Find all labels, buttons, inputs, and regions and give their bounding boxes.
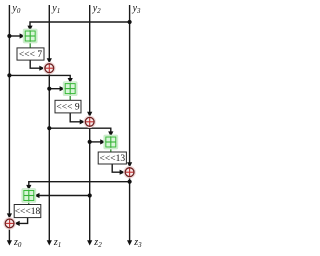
rot box R4 <<<18: [14, 205, 41, 218]
node y3 at A4: [128, 180, 132, 184]
wire y1 branch to adder A3 top: [49, 128, 111, 134]
svg-text:<<<18: <<<18: [15, 207, 41, 217]
rot box R2 <<<9: [55, 100, 81, 113]
wire y3 branch to adder A4 top: [29, 182, 130, 188]
arrow into adder A3 top: [108, 131, 113, 136]
arrow into adder A4 right: [34, 193, 39, 198]
arrow into XOR X3 left: [120, 170, 125, 175]
node y0 at A1: [7, 34, 11, 38]
node y1 at A2: [47, 87, 51, 91]
XOR X3: [124, 167, 135, 178]
output arrow z0: [7, 240, 12, 245]
node y2 at A3: [88, 140, 92, 144]
node y3 top branch: [128, 20, 132, 24]
arrow into XOR X1 top: [47, 58, 52, 63]
arrow into adder A4 top: [26, 185, 31, 190]
wire y3 branch to adder A1 top: [30, 22, 130, 29]
arrow into adder A3 left: [100, 139, 105, 144]
wire rot R2 output to XOR X2: [70, 113, 82, 122]
arrow into adder A2 left: [60, 86, 65, 91]
arrow into adder A1 top: [27, 26, 32, 31]
adder A2 (boxed plus): [64, 82, 77, 95]
arrow into XOR X4 top: [7, 213, 12, 218]
output arrow z1: [47, 240, 52, 245]
wire y3 vertical: [129, 5, 131, 242]
arrow into adder A2 top: [68, 78, 73, 83]
wire y0 branch to adder A1 left: [9, 35, 22, 37]
wire rot R3 output to XOR X3: [112, 164, 122, 172]
wire y0 vertical: [8, 5, 10, 242]
output arrow z3: [127, 240, 132, 245]
adder A1 (boxed plus): [24, 29, 37, 42]
svg-text:<<< 7: <<< 7: [19, 50, 42, 60]
rot box R1 <<<7: [17, 48, 44, 60]
adder A4 (boxed plus): [22, 189, 35, 202]
wire adder A2 to rot R2 (green): [69, 94, 71, 101]
node y1 at A3: [47, 126, 51, 130]
wire y1 branch to adder A2 left: [49, 88, 62, 90]
XOR X4: [4, 218, 15, 229]
rot box R3 <<<13: [98, 152, 126, 164]
arrow into XOR X4 right: [14, 221, 19, 226]
XOR X1: [44, 63, 55, 74]
node y0 at A2: [7, 73, 11, 77]
wire rot R4 output to XOR X4: [17, 218, 28, 224]
wire y2 branch to adder A3 left: [90, 141, 103, 143]
wire adder A3 to rot R3 (green): [110, 147, 112, 153]
wire adder A1 to rot R1 (green): [29, 41, 31, 48]
arrow into adder A1 left: [20, 33, 25, 38]
wire y0 branch to adder A2 top: [9, 75, 70, 81]
wire y2 vertical: [89, 5, 91, 242]
arrow into XOR X2 left: [80, 119, 85, 124]
wire adder A4 to rot R4 (green): [28, 201, 30, 205]
arrowheads: [7, 26, 132, 246]
svg-text:<<<13: <<<13: [100, 154, 126, 164]
adder A3 (boxed plus): [104, 135, 117, 148]
arrow into XOR X1 left: [39, 66, 44, 71]
output arrow z2: [87, 240, 92, 245]
wire rot R1 output to XOR X1: [30, 60, 42, 68]
arrow into XOR X2 top: [87, 112, 92, 117]
XOR X2: [84, 116, 95, 127]
arrow into XOR X3 top: [127, 162, 132, 167]
svg-text:<<< 9: <<< 9: [56, 103, 79, 113]
wire y2 branch to adder A4 right: [37, 195, 90, 197]
wire y1 vertical: [48, 5, 50, 242]
node y2 at A4: [88, 193, 92, 197]
